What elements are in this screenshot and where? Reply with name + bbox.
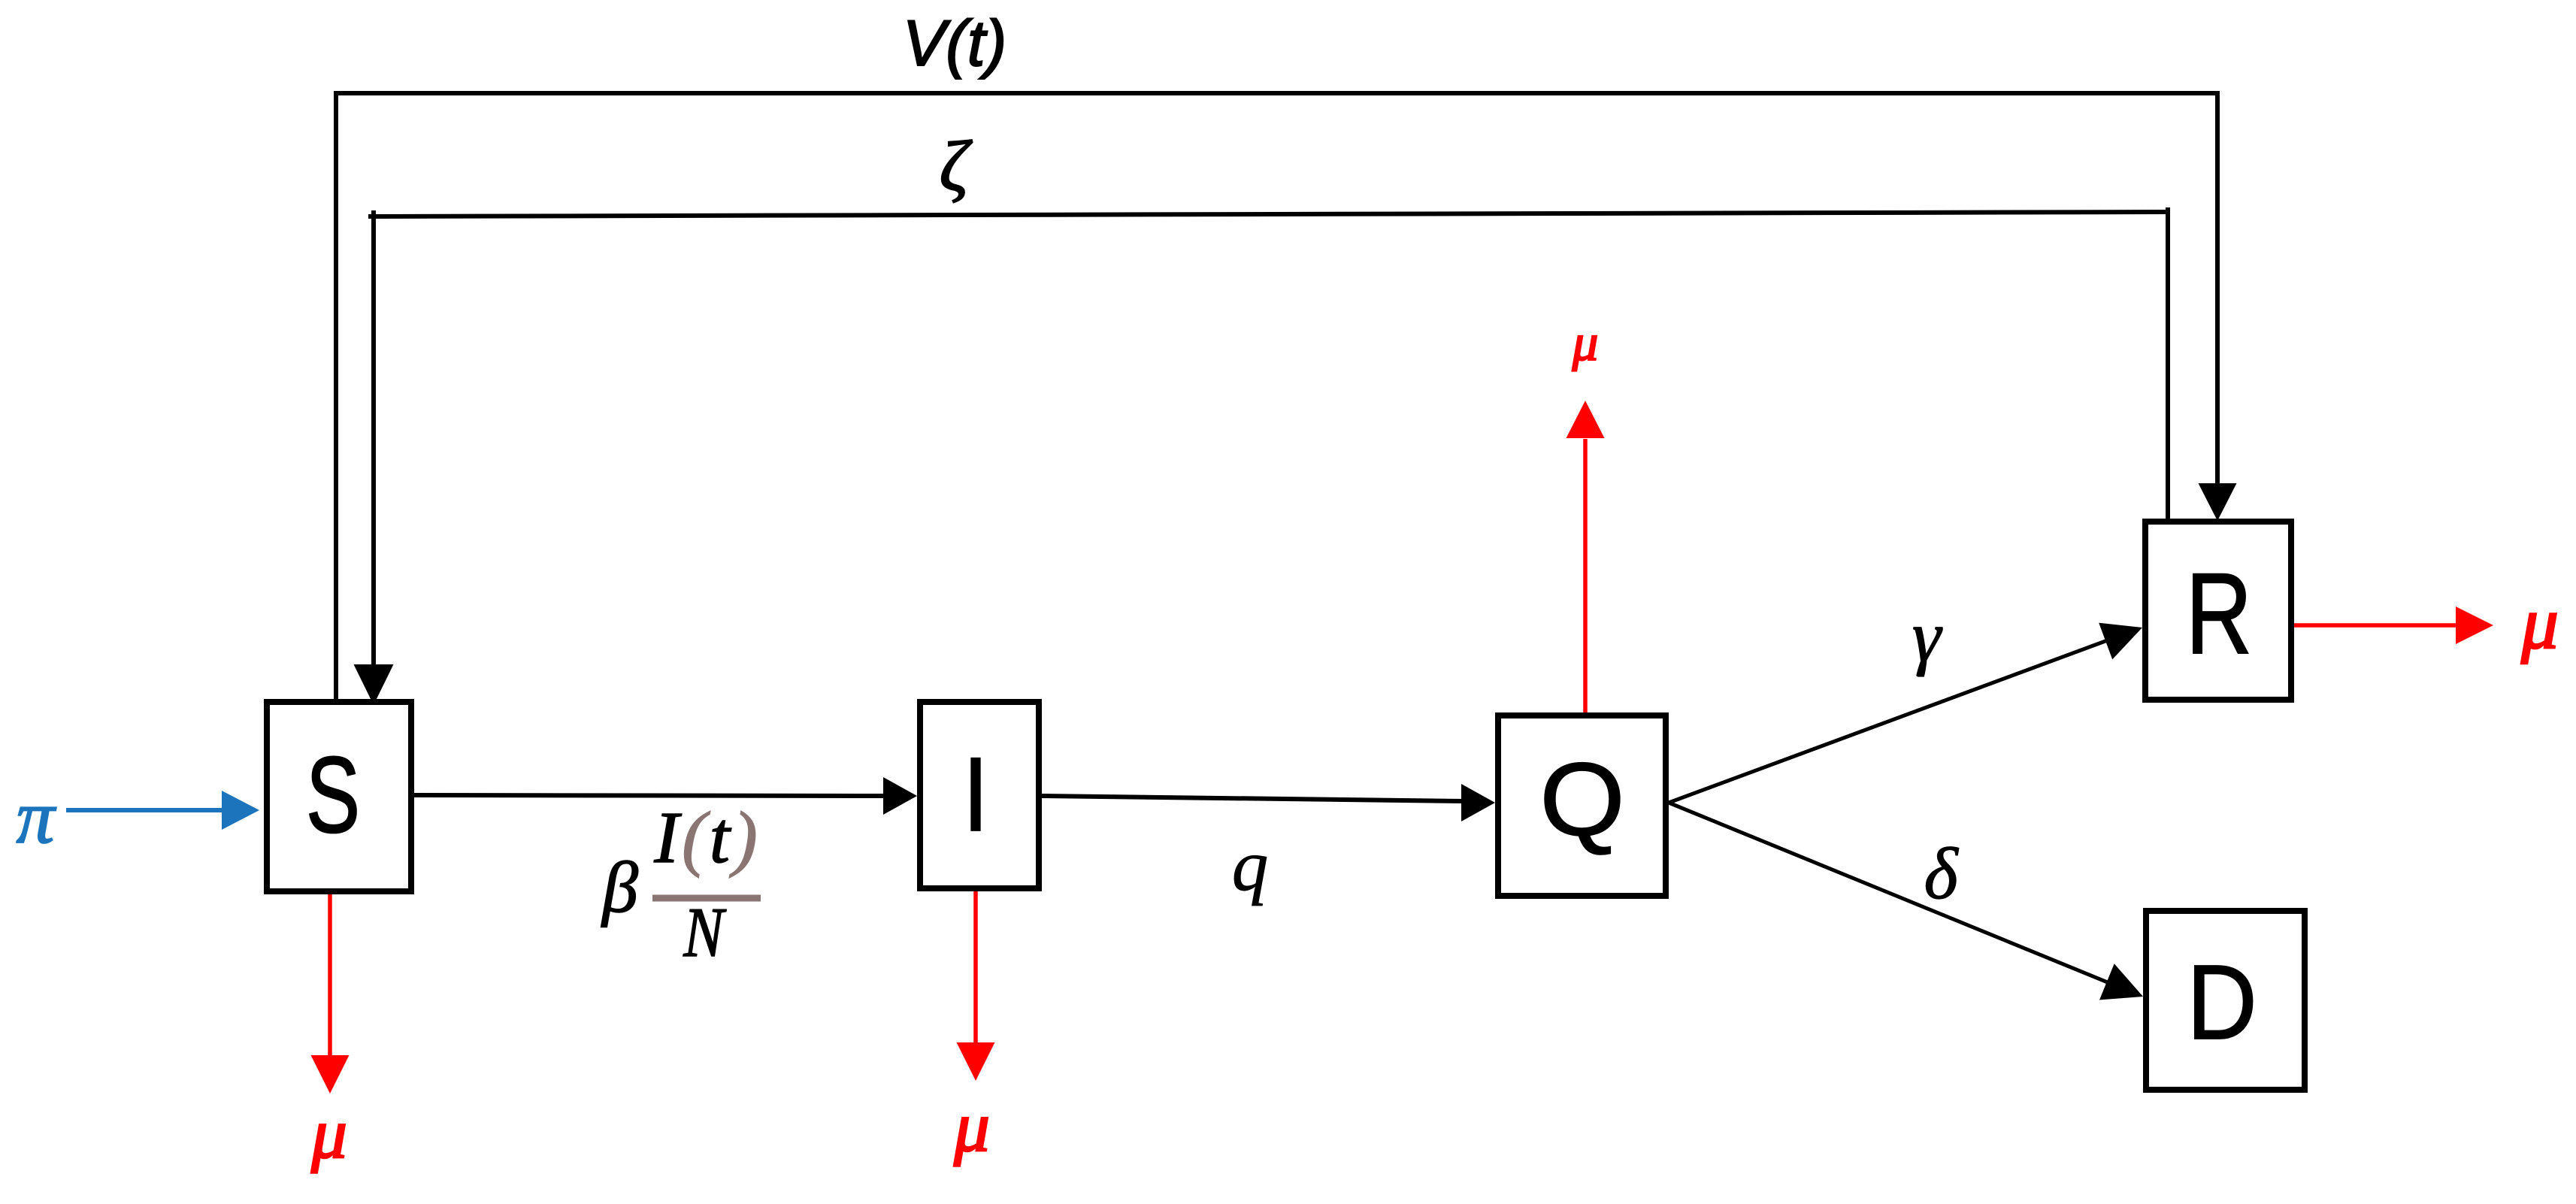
svg-text:β: β: [601, 847, 638, 927]
svg-text:I(t): I(t): [653, 797, 760, 879]
svg-text:δ: δ: [1924, 833, 1959, 914]
svg-text:ζ: ζ: [940, 126, 973, 206]
svg-text:μ: μ: [953, 1087, 990, 1166]
svg-text:N: N: [683, 893, 727, 972]
svg-text:π: π: [16, 775, 56, 860]
svg-text:μ: μ: [2520, 582, 2559, 664]
svg-text:Q: Q: [1539, 742, 1625, 858]
svg-text:μ: μ: [1572, 314, 1599, 371]
svg-text:D: D: [2187, 942, 2257, 1061]
svg-text:S: S: [306, 734, 360, 855]
svg-text:I: I: [962, 736, 988, 854]
svg-text:μ: μ: [310, 1094, 347, 1173]
svg-text:R: R: [2186, 550, 2252, 678]
svg-text:q: q: [1232, 825, 1269, 906]
svg-text:V(t): V(t): [903, 8, 1007, 80]
svg-text:γ: γ: [1912, 596, 1943, 676]
